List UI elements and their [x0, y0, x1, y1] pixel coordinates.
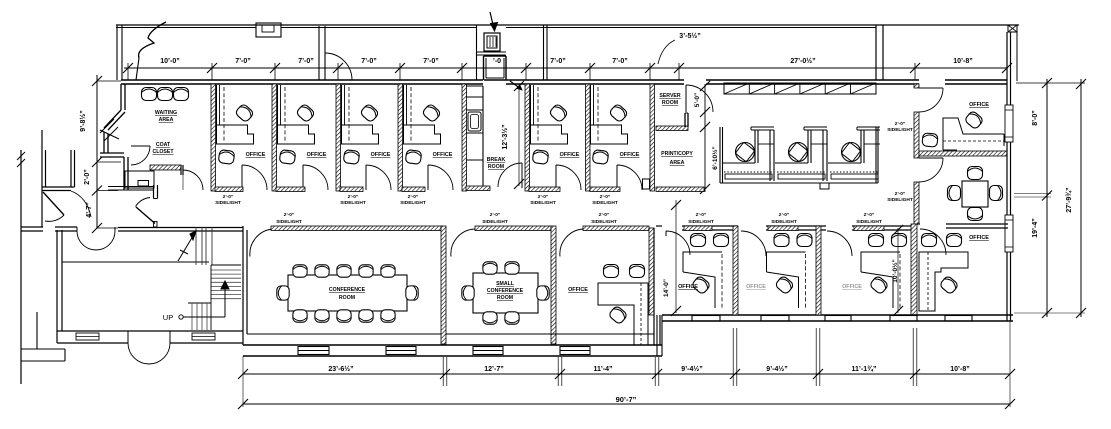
right top office door leaf and arc: [919, 87, 943, 89]
cubicle 3 shelf divider: [864, 143, 880, 145]
stair mid flight treads: [211, 264, 241, 266]
svg-text:3’-5½”: 3’-5½”: [679, 32, 700, 40]
left wall angled jog: [104, 110, 121, 128]
svg-text:7’-0”: 7’-0”: [423, 58, 439, 65]
svg-text:10’-8”: 10’-8”: [953, 58, 972, 65]
closet lower wall: [108, 186, 154, 188]
left exterior wall upper: [120, 84, 122, 110]
svg-text:SMALL: SMALL: [496, 281, 515, 287]
svg-text:AREA: AREA: [670, 160, 685, 166]
cubicle 3 panels: [857, 126, 880, 128]
svg-text:SIDELIGHT: SIDELIGHT: [688, 219, 714, 225]
svg-text:2’-0”: 2’-0”: [84, 169, 91, 185]
svg-text:7’-0”: 7’-0”: [298, 58, 314, 65]
bottom dim tick: [555, 369, 565, 379]
wall stub right of closet: [180, 165, 182, 175]
hallway dim 14-0: [675, 200, 677, 313]
svg-text:2’-0”: 2’-0”: [223, 194, 234, 200]
office desk chair 1: [235, 103, 255, 123]
cubicle 1 desk edge: [722, 162, 755, 164]
left wall break symbol: [100, 119, 114, 133]
step between bands: [656, 315, 658, 356]
top dimension line: [124, 67, 1007, 69]
svg-text:OFFICE: OFFICE: [620, 152, 640, 158]
left wall to closet: [123, 157, 125, 190]
meeting table: [962, 181, 988, 207]
office guest chair 4: [405, 150, 422, 165]
svg-text:ROOM: ROOM: [488, 164, 504, 170]
office partition wall (hatched): [586, 84, 591, 191]
divider wall hatched below top right office: [919, 151, 1007, 156]
lobby left wall: [56, 230, 58, 331]
svg-text:7’-0”: 7’-0”: [361, 58, 377, 65]
cubicle 2 panels: [804, 126, 827, 128]
cubicle 1 paper tray dotted: [724, 171, 772, 173]
office partition wall (hatched): [525, 84, 530, 191]
bottom office 1 chairs: [691, 234, 706, 247]
bottom right office O4 chairs: [922, 234, 937, 247]
svg-text:2’-0”: 2’-0”: [895, 121, 906, 127]
svg-text:7’-0”: 7’-0”: [235, 58, 251, 65]
svg-text:SIDELIGHT: SIDELIGHT: [591, 219, 617, 225]
svg-text:2’-0”: 2’-0”: [864, 212, 875, 218]
svg-text:SIDELIGHT: SIDELIGHT: [887, 197, 913, 203]
svg-text:SIDELIGHT: SIDELIGHT: [771, 219, 797, 225]
svg-text:2’-0”: 2’-0”: [895, 191, 906, 197]
svg-text:6’-10½”: 6’-10½”: [711, 146, 719, 170]
svg-text:SIDELIGHT: SIDELIGHT: [592, 200, 618, 206]
small conference table: [473, 273, 538, 313]
svg-text:CLOSET: CLOSET: [152, 149, 174, 155]
svg-text:SIDELIGHT: SIDELIGHT: [887, 127, 913, 133]
office desk 6: [591, 85, 628, 144]
dim tick: [910, 63, 920, 73]
svg-text:7’-0”: 7’-0”: [612, 58, 628, 65]
bottom dim tick: [440, 369, 450, 379]
top right office desk chair: [964, 110, 984, 130]
north/entry arrow: [490, 12, 494, 29]
bottom dim tick: [238, 369, 248, 379]
svg-text:OFFICE: OFFICE: [568, 287, 588, 293]
right middle room door leaf and arc: [919, 157, 943, 159]
stair arrow diagonal: [178, 231, 196, 261]
svg-text:10’-8”: 10’-8”: [950, 366, 969, 373]
cubicle 2 desk edge: [775, 162, 808, 164]
second door arc top-left of lobby: [71, 191, 91, 217]
cubicle 3 shelf: [831, 174, 878, 179]
coat closet door leaf and arc: [131, 145, 150, 147]
dim tick: [333, 63, 343, 73]
left dim tick: [92, 76, 102, 86]
svg-text:9’-8½”: 9’-8½”: [79, 110, 87, 131]
hallway wall stub box: [643, 179, 650, 189]
conference room top wall hatched: [271, 226, 441, 231]
cubicle 2 paper tray dotted: [777, 171, 825, 173]
print area south wall hatched: [656, 187, 704, 192]
office desk chair 2: [296, 103, 316, 123]
svg-text:OFFICE: OFFICE: [746, 284, 766, 290]
server room door leaf and arc: [685, 85, 687, 112]
bottom office 2 desk: [767, 252, 806, 272]
svg-text:CONFERENCE: CONFERENCE: [329, 287, 366, 293]
bottom dim extension lines: [442, 357, 444, 386]
left wall band at coat closet: [100, 152, 124, 154]
office partition wall (hatched): [462, 84, 467, 191]
entry door box: [484, 33, 500, 51]
dim tick: [645, 63, 655, 73]
lobby window east: [192, 333, 215, 340]
svg-text:PRINT/COPY: PRINT/COPY: [661, 151, 693, 157]
lobby bottom wall: [57, 330, 243, 332]
dim tick: [521, 63, 531, 73]
office partition wall (hatched): [272, 84, 277, 191]
office guest chair 6: [592, 150, 609, 165]
waiting area chairs: [142, 88, 157, 101]
office guest chair 5: [532, 150, 549, 165]
demising wall band to main wall at x=876: [875, 25, 877, 80]
small conference top wall hatched: [475, 226, 551, 231]
side corridor door arc above wall at x=325: [325, 53, 352, 80]
coat closet shelf: [125, 171, 154, 188]
bottom office 2 chairs: [774, 234, 789, 247]
left dim tick: [92, 157, 102, 167]
svg-text:OFFICE: OFFICE: [678, 284, 698, 290]
office desk 4: [404, 85, 441, 144]
cubicle 1 shelf: [725, 174, 772, 179]
svg-text:2’-0”: 2’-0”: [779, 212, 790, 218]
svg-text:SIDELIGHT: SIDELIGHT: [530, 200, 556, 206]
bottom office east wall step: [653, 228, 655, 345]
office guest chair 2: [279, 150, 296, 165]
left dim tick: [92, 186, 102, 196]
svg-text:90’-7”: 90’-7”: [616, 395, 637, 404]
office door 1: [241, 165, 243, 190]
top right office guest chair: [922, 133, 938, 147]
break room dim 12-3half: [518, 84, 520, 186]
dim tick: [207, 63, 217, 73]
dim tick: [270, 63, 280, 73]
office door 6: [616, 165, 618, 190]
svg-text:UP: UP: [163, 313, 173, 322]
office partition wall (hatched): [211, 84, 216, 191]
conference chairs ends: [277, 286, 289, 300]
bottom office top wall hatched: [583, 226, 649, 231]
svg-text:OFFICE: OFFICE: [371, 152, 391, 158]
office guest chair 1: [218, 150, 235, 165]
right dim line 8-0 / 19-4: [1046, 79, 1048, 317]
main top wall outer line y=80: [121, 79, 483, 81]
dim tick: [123, 63, 133, 73]
svg-text:11’-4”: 11’-4”: [593, 366, 612, 373]
office sidelight sill hatched: [402, 187, 425, 192]
server room east wall stub: [684, 113, 686, 127]
conference room table: [288, 275, 407, 311]
lobby window west: [76, 333, 99, 340]
cubicle bottom tab: [820, 183, 829, 189]
bottom office 1 desk: [683, 252, 722, 272]
break room counter: [482, 86, 484, 186]
small conference right wall hatched: [551, 226, 556, 344]
conference room right wall hatched: [441, 226, 446, 344]
bottom dim tick: [1005, 369, 1015, 379]
entry vestibule walls: [476, 25, 478, 80]
bottom dim tick: [652, 369, 662, 379]
office door 3: [365, 165, 367, 190]
svg-text:SIDELIGHT: SIDELIGHT: [856, 219, 882, 225]
server room south wall hatched: [656, 126, 688, 131]
office sidelight sill hatched: [529, 187, 560, 192]
svg-text:2’-0”: 2’-0”: [696, 212, 707, 218]
vertical dim line 5-0 / 6-10half: [704, 84, 706, 192]
bottom office 3 chair: [869, 275, 889, 295]
svg-text:ROOM: ROOM: [662, 100, 678, 106]
bottom dim tick: [813, 369, 823, 379]
left dimension line: [96, 75, 98, 228]
cubicle 1 panels: [751, 126, 774, 128]
exterior wall: top band outer line: [116, 24, 1019, 26]
stair lower flight treads: [188, 302, 211, 304]
bottom office 1 chair: [691, 275, 711, 295]
storage band with diagonal hatch: [724, 83, 876, 94]
bottom office chairs: [604, 265, 619, 278]
break room sill hatched: [466, 186, 490, 191]
dim tick: [1002, 63, 1012, 73]
bottom dim tick: [730, 369, 740, 379]
svg-text:2’-0”: 2’-0”: [348, 194, 359, 200]
right wall window upper: [1005, 105, 1013, 142]
conference chairs bottom: [293, 310, 307, 322]
bottom right office O4 desk: [919, 252, 968, 311]
neighbour upper walls: [70, 150, 72, 187]
svg-text:OFFICE: OFFICE: [969, 235, 989, 241]
lobby inner line: [62, 261, 209, 263]
svg-text:9’-4½”: 9’-4½”: [766, 365, 787, 373]
office door 4: [427, 165, 429, 190]
cubicle 2 shelf divider: [811, 143, 827, 145]
break squiggle crossing walkway: [139, 22, 166, 58]
right wall window lower: [1005, 215, 1013, 252]
side entry walls x=319-325 band to main wall: [318, 26, 320, 80]
svg-text:2’-0”: 2’-0”: [284, 212, 295, 218]
bottom office 3 desk: [861, 252, 900, 272]
total dim line 90-7: [243, 403, 1010, 405]
partition O2/O3 hatched: [816, 226, 821, 315]
conference room door arc: [250, 229, 274, 257]
bottom wall band right section: [662, 314, 1013, 316]
svg-text:SIDELIGHT: SIDELIGHT: [482, 219, 508, 225]
wall stub x=544 band to main wall: [543, 25, 545, 80]
svg-text:7’-0”: 7’-0”: [550, 58, 566, 65]
svg-text:WAITING: WAITING: [155, 110, 177, 116]
cubicle 3 paper tray dotted: [830, 171, 878, 173]
neighbour break symbol: [17, 152, 25, 160]
exterior wall: top band inner line: [116, 27, 256, 29]
cubicle block outline: [719, 127, 721, 183]
svg-text:OFFICE: OFFICE: [246, 152, 266, 158]
exterior double doors: [128, 343, 149, 364]
svg-text:SIDELIGHT: SIDELIGHT: [340, 200, 366, 206]
office sidelight sill hatched: [340, 187, 363, 192]
conference room left wall: [242, 226, 244, 345]
svg-text:SERVER: SERVER: [659, 93, 680, 99]
cubicle 1 chair: [736, 143, 755, 162]
bottom right offices top wall: [656, 225, 662, 227]
bottom right office O4 chair: [939, 275, 959, 295]
corridor door swing arc: [136, 198, 151, 207]
office guest chair 3: [343, 150, 360, 165]
entry threshold lines: [476, 51, 506, 53]
svg-text:2’-0”: 2’-0”: [600, 194, 611, 200]
break room door arc: [521, 163, 523, 188]
svg-text:COAT: COAT: [156, 142, 171, 148]
svg-text:12’-3½”: 12’-3½”: [501, 124, 509, 149]
lobby top wall: [21, 226, 43, 228]
dim tick: [457, 63, 467, 73]
svg-text:SIDELIGHT: SIDELIGHT: [276, 219, 302, 225]
cubicle 2 chair: [789, 143, 808, 162]
dim 10-0half in office 3: [897, 228, 899, 313]
entry door leaf swing inside: [510, 81, 521, 89]
svg-text:’-0: ’-0: [493, 58, 501, 65]
cubicle 3 chair: [842, 143, 861, 162]
door arc into corridor: [183, 170, 203, 190]
hallway west wall hatched: [649, 228, 654, 315]
right dim line 27-9three-quarter: [1080, 79, 1082, 317]
svg-text:19’-4”: 19’-4”: [1032, 218, 1039, 237]
svg-text:2’-0”: 2’-0”: [490, 212, 501, 218]
main top wall inner line y=84: [121, 83, 483, 85]
svg-text:23’-6½”: 23’-6½”: [328, 365, 353, 373]
office door 5: [555, 165, 557, 190]
bottom windows right section: [692, 316, 720, 322]
wall between open office and right offices (hatched): [914, 84, 919, 88]
svg-text:9’-4½”: 9’-4½”: [681, 365, 702, 373]
office sidelight sill hatched: [215, 187, 243, 192]
neighbour door leaf and arc: [43, 192, 64, 215]
stair up arrow: [224, 283, 226, 317]
top right office desk: [943, 118, 1004, 150]
svg-text:AREA: AREA: [159, 117, 174, 123]
partition O1/O2 hatched: [733, 226, 738, 315]
svg-text:11’-1¾”: 11’-1¾”: [852, 365, 877, 373]
office partition wall (hatched): [650, 84, 655, 191]
right exterior wall: [1006, 32, 1008, 105]
bottom dim tick: [910, 369, 920, 379]
svg-text:OFFICE: OFFICE: [842, 284, 862, 290]
office desk 1: [217, 85, 254, 144]
svg-text:2’-0”: 2’-0”: [599, 212, 610, 218]
cubicle 2 shelf: [778, 174, 825, 179]
break room sink: [468, 112, 481, 131]
svg-text:8’-0”: 8’-0”: [1032, 110, 1039, 126]
svg-text:OFFICE: OFFICE: [433, 152, 453, 158]
svg-text:2’-0”: 2’-0”: [408, 194, 419, 200]
office desk chair 4: [422, 103, 442, 123]
corridor door leaf diagonal: [136, 207, 155, 224]
door arcs bottom right offices: [666, 231, 690, 255]
svg-text:14’-0”: 14’-0”: [663, 279, 670, 297]
office desk 2: [278, 85, 315, 144]
office partition wall (hatched): [336, 84, 341, 191]
svg-text:5’-0”: 5’-0”: [694, 93, 701, 107]
office desk 3: [342, 85, 379, 144]
top band left end verticals: [116, 25, 118, 80]
svg-text:ROOM: ROOM: [339, 295, 355, 301]
svg-text:OFFICE: OFFICE: [969, 102, 989, 108]
bottom wall inner face left section: [247, 333, 441, 335]
office desk chair 5: [549, 103, 569, 123]
conference chairs top: [293, 265, 307, 277]
bottom office door arc: [560, 229, 584, 257]
svg-text:SIDELIGHT: SIDELIGHT: [400, 200, 426, 206]
bottom wall band left section: [243, 344, 662, 346]
lobby double doors down: [77, 231, 96, 250]
corridor door stub wall: [153, 185, 155, 199]
bottom windows left section: [298, 347, 329, 355]
left dim tick: [92, 223, 102, 233]
svg-text:OFFICE: OFFICE: [307, 152, 327, 158]
skylight box on top band: [256, 23, 281, 37]
svg-text:CONFERENCE: CONFERENCE: [487, 288, 524, 294]
svg-text:2’-0”: 2’-0”: [538, 194, 549, 200]
bottom dim line segments: [243, 373, 1010, 375]
office partition wall (hatched): [398, 84, 403, 191]
small conference room door arc: [451, 229, 475, 257]
bottom office desk: [598, 283, 648, 345]
svg-text:BREAK: BREAK: [487, 157, 506, 163]
svg-text:27’-9¾”: 27’-9¾”: [1065, 187, 1073, 212]
cubicle 3 desk edge: [828, 162, 861, 164]
svg-text:10’-0½”: 10’-0½”: [891, 259, 899, 283]
svg-text:27’-0½”: 27’-0½”: [790, 57, 815, 65]
office sidelight sill hatched: [590, 187, 620, 192]
dim tick: [585, 63, 595, 73]
right wall outer face upper: [1016, 25, 1018, 81]
office desk chair 6: [609, 103, 629, 123]
office door 2: [302, 165, 304, 190]
stair upper flight: [195, 227, 197, 265]
dim tick: [395, 63, 405, 73]
small conference chairs: [483, 262, 497, 274]
entry step: [21, 348, 65, 350]
svg-text:12’-7”: 12’-7”: [484, 366, 503, 373]
meeting chairs: [968, 167, 983, 180]
bottom office 3 chairs: [869, 234, 884, 247]
office sidelight sill hatched: [276, 187, 305, 192]
left wall lower segment: [103, 132, 105, 153]
svg-text:OFFICE: OFFICE: [560, 152, 580, 158]
dim tick: [674, 63, 684, 73]
svg-text:ROOM: ROOM: [497, 295, 513, 301]
office desk 5: [531, 85, 568, 144]
cubicle 1 shelf divider: [758, 143, 774, 145]
office desk chair 3: [360, 103, 380, 123]
bottom office 2 chair: [775, 275, 795, 295]
top right corner column with X brace: [1008, 25, 1017, 32]
svg-text:SIDELIGHT: SIDELIGHT: [215, 200, 241, 206]
coat closet south wall hatched: [150, 165, 181, 170]
left neighbour wall: [20, 150, 22, 384]
svg-text:10’-0”: 10’-0”: [160, 58, 179, 65]
